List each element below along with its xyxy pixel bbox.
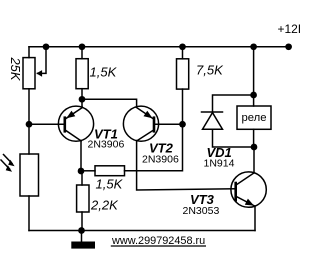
- resistor 2,2K top lead: [81, 171, 83, 185]
- diode VD1 top wire: [213, 95, 254, 112]
- wire emitters VT1 VT2: [82, 99, 137, 106]
- relay box: [237, 106, 271, 129]
- transistor VT3 emitter arrow: [245, 199, 254, 206]
- ground stub: [81, 231, 83, 242]
- svg-text:2N3906: 2N3906: [88, 139, 125, 151]
- wire VT1 base: [29, 123, 65, 125]
- potentiometer 25K body: [23, 58, 35, 89]
- transistor VT1 emitter arrow: [66, 111, 75, 119]
- resistor 7,5K top lead: [182, 47, 184, 59]
- svg-text:1N914: 1N914: [204, 157, 235, 169]
- ground bar: [71, 242, 95, 249]
- potentiometer wiper wire: [38, 47, 47, 74]
- light arrow 2: [1, 160, 10, 169]
- svg-text:7,5K: 7,5K: [196, 63, 224, 78]
- transistor VT2 circle: [123, 106, 158, 141]
- resistor 7,5K body: [177, 59, 189, 89]
- wire VT2 collector to VT3 base: [137, 141, 236, 191]
- svg-text:реле: реле: [241, 112, 266, 124]
- photoresistor body: [20, 154, 39, 196]
- transistor VT2 base bar: [153, 118, 156, 132]
- wire VT1 emitter lead: [81, 99, 83, 107]
- transistor VT3 collector diagonal: [236, 173, 254, 185]
- junction dot VD1 bottom: [251, 144, 258, 151]
- diode VD1 bottom wire: [213, 129, 255, 147]
- svg-text:2,2K: 2,2K: [90, 198, 119, 213]
- transistor VT3 base bar: [234, 183, 237, 200]
- junction dot 1,5K top: [79, 43, 86, 50]
- junction dot VT2 base node: [179, 121, 186, 128]
- resistor 1,5K horizontal left lead: [81, 170, 95, 172]
- junction dot relay top rail: [250, 43, 257, 50]
- resistor 1,5K body: [76, 59, 88, 89]
- resistor 1,5K horizontal body: [95, 166, 125, 176]
- transistor VT2 collector diagonal: [137, 130, 154, 141]
- transistor VT1 emitter diagonal: [65, 107, 83, 119]
- junction dot wiper top: [43, 43, 50, 50]
- transistor VT3 emitter diagonal: [236, 196, 255, 206]
- svg-text:+12Е: +12Е: [278, 22, 301, 36]
- junction dot VT1 emitter node: [79, 96, 86, 103]
- transistor VT3 emitter lead: [254, 206, 256, 231]
- svg-text:2N3906: 2N3906: [142, 153, 179, 165]
- svg-text:1,5K: 1,5K: [96, 177, 124, 192]
- light arrow 1: [4, 155, 13, 164]
- potentiometer 25K top lead: [28, 47, 30, 58]
- transistor VT1 collector diagonal: [65, 130, 81, 141]
- wire VT2 base: [154, 123, 183, 125]
- diode VD1 triangle: [203, 113, 223, 130]
- potentiometer 25K bottom lead: [28, 89, 30, 154]
- junction dot divider node: [26, 121, 33, 128]
- wire 7,5K line down to 1,5K feedback: [125, 124, 183, 171]
- relay top lead: [253, 47, 255, 106]
- potentiometer wiper arrow: [36, 70, 42, 77]
- svg-text:2N3053: 2N3053: [183, 205, 220, 217]
- resistor 1,5K top lead: [81, 47, 83, 59]
- junction dot ground node: [78, 227, 85, 234]
- diode VD1 cathode bar: [202, 111, 223, 113]
- transistor VT1 circle: [58, 106, 93, 141]
- junction dot VT1 collector node: [78, 168, 85, 175]
- junction dot +12V terminal: [285, 43, 292, 50]
- transistor VT1 base bar: [64, 118, 67, 132]
- wire relay to VT3 collector: [253, 147, 255, 173]
- svg-text:www.299792458.ru: www.299792458.ru: [111, 235, 205, 247]
- photoresistor bottom lead: [28, 196, 30, 231]
- svg-text:25K: 25K: [8, 56, 23, 81]
- website underline: [111, 245, 206, 247]
- transistor VT2 emitter diagonal: [136, 107, 154, 119]
- transistor VT2 emitter arrow: [144, 111, 153, 119]
- resistor 7,5K bottom lead: [182, 89, 184, 124]
- resistor 1,5K bottom lead: [81, 89, 83, 100]
- transistor VT1 collector lead: [80, 141, 82, 172]
- wire top rail: [29, 46, 289, 48]
- junction dot 7,5K top: [179, 43, 186, 50]
- transistor VT3 circle: [231, 172, 266, 207]
- relay bottom lead: [253, 129, 255, 147]
- svg-text:1,5K: 1,5K: [90, 65, 118, 80]
- resistor 2,2K bottom lead: [81, 212, 83, 230]
- wire bottom rail: [29, 230, 255, 232]
- resistor 2,2K body: [77, 185, 89, 212]
- junction dot VD1 top: [250, 92, 257, 99]
